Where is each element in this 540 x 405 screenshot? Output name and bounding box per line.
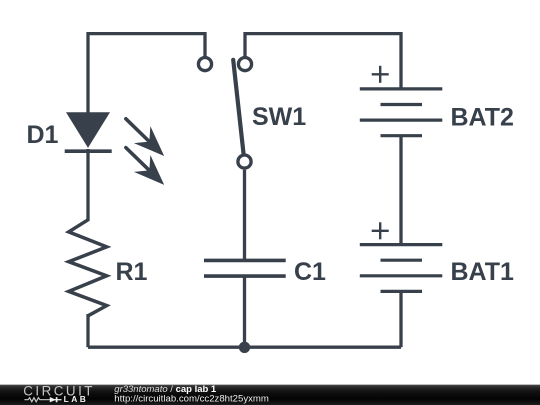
svg-text:C1: C1 <box>294 258 326 286</box>
svg-text:SW1: SW1 <box>252 103 306 131</box>
wire D1 top to SW1 left terminal <box>88 34 205 114</box>
plus sign BAT2 <box>372 66 389 83</box>
wire R1 bottom to bottom net <box>86 314 89 347</box>
wire BAT2 bottom to BAT1 top <box>399 137 402 244</box>
battery BAT1 <box>360 245 443 292</box>
switch SW1 <box>198 58 251 169</box>
svg-text:LAB: LAB <box>64 394 89 404</box>
wire SW1 common to C1 top <box>243 170 246 260</box>
capacitor C1 <box>204 260 286 276</box>
wire C1 bottom to bottom net <box>243 277 246 347</box>
wire SW1 right terminal to BAT2 top <box>245 34 401 88</box>
footer bar <box>0 384 540 405</box>
svg-text:http://circuitlab.com/cc2z8ht2: http://circuitlab.com/cc2z8ht25yxmm <box>114 394 269 405</box>
wire D1 cathode to R1 top <box>86 149 89 221</box>
resistor R1 <box>69 220 107 316</box>
svg-text:R1: R1 <box>116 258 148 286</box>
LED D1 <box>65 109 173 193</box>
logo diode symbol <box>50 397 62 402</box>
svg-text:BAT1: BAT1 <box>451 258 515 286</box>
logo resistor zigzag <box>24 398 49 402</box>
junction node bottom <box>239 342 250 353</box>
plus sign BAT1 <box>372 222 389 239</box>
battery BAT2 <box>360 89 443 136</box>
svg-text:D1: D1 <box>27 121 59 149</box>
svg-text:BAT2: BAT2 <box>451 104 514 132</box>
wire bottom net <box>88 346 401 349</box>
wire BAT1 bottom to bottom net <box>399 292 402 347</box>
